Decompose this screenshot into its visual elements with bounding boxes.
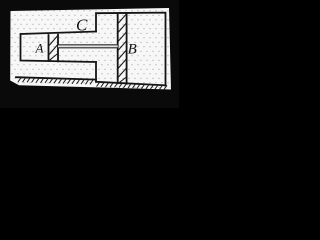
- svg-text:C: C: [76, 16, 88, 35]
- ground hatching ticks (under container bottom): [97, 82, 168, 89]
- rod between piston A and wall B: [58, 45, 118, 47]
- cylinder tube (left) outline: [21, 32, 97, 63]
- white paper area: [10, 8, 171, 90]
- container C outline: [96, 13, 166, 86]
- piston A hatching: [49, 36, 58, 61]
- wall B left boundary: [117, 14, 119, 84]
- container C bottom edge: [96, 82, 166, 86]
- wall B right boundary: [126, 13, 128, 84]
- svg-text:B: B: [128, 42, 137, 58]
- photo black surround: [0, 0, 179, 108]
- wall B hatching: [118, 14, 126, 83]
- piston A left boundary: [48, 35, 50, 61]
- svg-text:A: A: [35, 40, 44, 55]
- left ground line: [16, 77, 96, 79]
- container C lower-left wall: [95, 62, 97, 82]
- halftone dot texture: [10, 8, 171, 90]
- piston A right boundary: [57, 35, 59, 62]
- ground hatching ticks (left ground): [18, 78, 93, 85]
